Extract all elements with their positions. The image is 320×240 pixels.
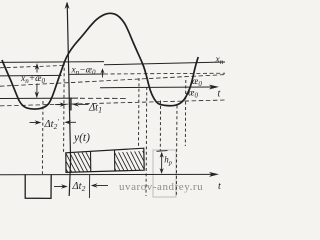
vertical dashed line x=186 — [184, 80, 187, 146]
upper t-axis left solid part — [0, 97, 78, 99]
level line -ae0 (dashed, full width) — [0, 100, 225, 106]
vertical dashed line x=161 — [159, 101, 161, 151]
divider right of white gap — [114, 150, 116, 171]
level line x_p-ae0 (left solid part) — [0, 74, 62, 77]
extra dashed axis segment (scan artifact line) — [80, 97, 128, 99]
h_p measuring arrow (double headed vertical) — [161, 154, 163, 173]
dt1 dimension: right-pointing arrow — [55, 104, 64, 106]
svg-text:uvarov-andrey.ru: uvarov-andrey.ru — [119, 181, 203, 193]
level line x_p (solid right part, after label box) — [104, 62, 225, 65]
divider left of white gap — [90, 151, 92, 172]
level line +ae0 (dashed, full width) — [0, 75, 225, 87]
dt2' dimension: left-pointing arrow — [64, 120, 71, 124]
dt2 dimension: right-pointing arrow — [54, 186, 65, 188]
lower t-axis — [0, 173, 212, 175]
measuring arrow x_p+ae0 upper part — [36, 65, 38, 73]
vertical axis arrowhead — [65, 2, 70, 10]
svg-text:t: t — [218, 89, 221, 100]
label box bottom edge — [69, 73, 104, 75]
level line x_p+ae0 with label box top — [0, 61, 104, 64]
dt2 terminator line (x=89.5, below axis) — [88, 175, 90, 198]
vertical dashed line x=176.5 — [175, 106, 178, 197]
vertical dashed line at x=42 — [41, 101, 44, 174]
hatching of first pulse (backslash direction) — [66, 152, 91, 172]
dt2' dimension: right-pointing arrow — [30, 122, 40, 124]
upper t-axis right solid part — [100, 86, 212, 89]
pulse rectangle outline (y(t) pulse block) — [66, 148, 144, 172]
hatching of second pulse (backslash direction) — [115, 151, 144, 171]
measuring arrow x_p+ae0 lower part — [36, 84, 38, 97]
negative pulse below axis — [25, 174, 51, 198]
dt1 dimension: terminator bar — [70, 98, 72, 111]
upper t-axis arrowhead — [209, 85, 219, 90]
svg-text:y(t): y(t) — [73, 132, 90, 144]
lower t-axis arrowhead — [209, 172, 219, 177]
vertical dashed line x=147 — [145, 87, 148, 196]
watermark box — [153, 150, 176, 197]
level line x_p (dashed left part) — [0, 65, 66, 67]
dt1 dimension: left-pointing arrow — [72, 102, 79, 106]
vertical axis (through both plots) — [67, 3, 70, 196]
svg-text:t: t — [218, 181, 221, 192]
level line x_p-ae0 (right dashed part) — [104, 72, 225, 75]
dt2 dimension: left-pointing arrow — [91, 183, 98, 187]
vertical dashed line x=138.5 — [138, 78, 141, 149]
upper t-axis middle dashed part — [80, 97, 128, 99]
vertical dashed line at x=64 (pulse start marker) — [63, 63, 66, 153]
paper background — [0, 0, 225, 214]
h_p level tick — [157, 150, 168, 153]
signal curve x(t) — [2, 13, 198, 109]
svg-text:Δt2': Δt2' — [44, 118, 60, 131]
mini arrow at x_p-ae0 label — [102, 70, 104, 78]
